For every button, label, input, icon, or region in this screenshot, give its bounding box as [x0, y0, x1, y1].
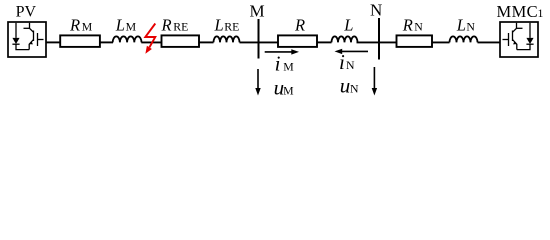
diode inside PV: [12, 23, 29, 50]
svg-text:i: i: [275, 52, 281, 76]
svg-text:R: R: [161, 16, 172, 35]
svg-text:M: M: [250, 1, 265, 20]
wire L_RE to node M: [240, 41, 259, 43]
IGBT inside PV: [24, 23, 44, 50]
IGBT inside MMC1: [503, 23, 523, 50]
resistor R: [278, 35, 317, 47]
wire R_RE to L_RE: [199, 41, 214, 43]
voltage arrow uM: [257, 69, 259, 90]
svg-text:L: L: [214, 16, 224, 35]
svg-text:RE: RE: [224, 20, 239, 34]
svg-text:1: 1: [538, 6, 544, 20]
fault lightning bolt: [145, 24, 155, 48]
resistor R_M: [60, 35, 100, 47]
converter PV box: [8, 22, 46, 57]
svg-text:RE: RE: [173, 20, 188, 34]
node N bus bar: [378, 18, 380, 60]
inductor L_N: [450, 36, 478, 42]
wire node N to R_N: [379, 41, 397, 43]
wire node M to R: [259, 41, 279, 43]
wire L_N to MMC1 box: [478, 41, 501, 43]
svg-text:u: u: [340, 73, 351, 97]
diode inside MMC1: [517, 23, 534, 50]
svg-text:M: M: [82, 20, 93, 34]
svg-text:N: N: [350, 81, 359, 95]
wire L_M to R_RE: [141, 41, 161, 43]
wire R_N to L_N: [432, 41, 450, 43]
svg-text:L: L: [343, 16, 353, 35]
wire PV box to R_M: [46, 41, 60, 43]
svg-text:N: N: [466, 20, 475, 34]
svg-text:MMC: MMC: [497, 2, 539, 21]
resistor R_RE: [162, 35, 200, 47]
svg-text:N: N: [346, 58, 355, 72]
node M bus bar: [258, 19, 260, 59]
voltage arrow uN: [373, 67, 375, 90]
current arrow iN: [342, 50, 369, 52]
current arrow iM: [265, 51, 292, 53]
inductor L_RE: [214, 36, 240, 42]
svg-text:L: L: [115, 16, 125, 35]
svg-text:M: M: [283, 60, 294, 74]
wire R_M to L_M: [100, 41, 113, 43]
svg-text:N: N: [370, 0, 382, 19]
svg-text:M: M: [283, 83, 294, 97]
svg-text:PV: PV: [16, 4, 37, 21]
inductor L: [332, 36, 358, 42]
wire L to node N: [357, 41, 380, 43]
svg-text:L: L: [456, 16, 466, 35]
resistor R_N: [397, 35, 433, 47]
svg-text:R: R: [402, 16, 413, 35]
svg-text:M: M: [126, 20, 137, 34]
wire R to L: [317, 41, 332, 43]
svg-text:i: i: [339, 50, 345, 74]
converter MMC1 box: [500, 22, 538, 57]
svg-text:R: R: [294, 16, 305, 35]
svg-text:R: R: [69, 16, 80, 35]
svg-text:N: N: [414, 20, 423, 34]
inductor L_M: [113, 36, 142, 42]
